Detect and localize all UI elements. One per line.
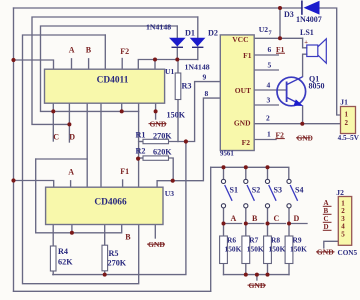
wire S4 output column [288, 208, 290, 236]
svg-text:C: C [53, 132, 59, 141]
svg-text:B: B [252, 214, 258, 223]
wire R5 top lead [104, 225, 106, 246]
switch S4 [287, 179, 298, 208]
IC U3 CD4066 [46, 187, 163, 224]
svg-text:GND: GND [297, 134, 313, 142]
diode D1 [169, 38, 186, 48]
wire speaker plus terminal [303, 38, 307, 48]
svg-text:R6: R6 [227, 236, 236, 245]
svg-text:1N4007: 1N4007 [296, 15, 322, 24]
svg-text:F2: F2 [120, 47, 129, 56]
svg-text:150K: 150K [225, 245, 242, 254]
wire CD4011 top pin B stub [88, 59, 90, 69]
wire J2 pin5 to ground [324, 241, 339, 248]
wire net C tap [268, 223, 286, 225]
wire U2 pin1 F2 stub [254, 139, 276, 141]
wire resistor rail GND tap [256, 275, 258, 280]
wire CD4011 to CD4066 vertical b [100, 103, 102, 187]
svg-text:A: A [69, 45, 75, 54]
IC U1 CD4011 [45, 69, 165, 103]
wire left rail tap to CD4066 top pin [14, 181, 54, 188]
svg-text:R2: R2 [136, 147, 146, 156]
svg-text:U3: U3 [165, 189, 174, 198]
svg-text:+: + [304, 39, 308, 46]
svg-text:A: A [231, 214, 237, 223]
wire R4 bottom lead [52, 271, 54, 275]
wire D1 anode loop to CD4011 bottom pins [41, 26, 177, 111]
svg-text:2: 2 [266, 114, 270, 123]
svg-text:LS1: LS1 [300, 28, 314, 37]
svg-text:R5: R5 [109, 249, 119, 258]
svg-text:S2: S2 [252, 186, 260, 195]
wire S2 output column [245, 208, 247, 236]
wire CD4011 pin to D1 D2 node [138, 60, 198, 70]
svg-text:270K: 270K [153, 132, 172, 141]
diode D2 [190, 38, 206, 48]
wire left outer rail [13, 8, 15, 291]
wire R8 bottom lead [267, 264, 269, 275]
resistor R3 [175, 73, 181, 100]
connector J2 [338, 197, 351, 246]
wire R2 left lead [139, 157, 143, 159]
svg-text:6: 6 [268, 45, 272, 54]
svg-text:150K: 150K [269, 245, 286, 254]
wire D2 anode loop to CD4011 pin D [32, 17, 198, 124]
resistor R6 [220, 236, 228, 264]
J2 net label A [323, 199, 332, 207]
wire D2 anode lead [197, 17, 199, 38]
svg-text:CD4066: CD4066 [94, 198, 127, 208]
ground symbol at J2 [316, 248, 335, 257]
svg-text:A: A [68, 168, 74, 177]
resistor R2 [143, 156, 169, 160]
wire R1 right to U2 pin9 [169, 82, 221, 142]
svg-text:F1: F1 [276, 45, 285, 54]
svg-text:D1: D1 [185, 29, 195, 38]
wire bottom rail A to R1 node [53, 142, 186, 275]
resistor R9 [285, 236, 293, 264]
net label F2 at pin 1 [276, 130, 285, 139]
wire CD4066 GND stub [154, 225, 156, 239]
wire top supply rail [14, 7, 303, 9]
J2 net label C [323, 215, 332, 223]
svg-text:1: 1 [267, 130, 271, 139]
svg-text:C: C [274, 214, 280, 223]
switch S2 [244, 179, 255, 208]
wire S1 output column [223, 208, 225, 236]
ground symbol below CD4066 [147, 240, 165, 249]
svg-text:F1: F1 [243, 51, 252, 60]
wire CD4066 top pin F1 stub [122, 180, 124, 187]
connector J1 [341, 107, 356, 134]
svg-text:2: 2 [345, 119, 349, 127]
svg-text:B: B [86, 45, 92, 54]
svg-text:CON5: CON5 [338, 249, 358, 257]
wire CD4011 to CD4066 vertical a [86, 103, 88, 187]
ground symbol at Q1 emitter [296, 134, 313, 142]
svg-text:7: 7 [269, 30, 272, 37]
svg-text:J1: J1 [340, 97, 348, 106]
J2 net label B [323, 207, 332, 215]
wire resistor ground rail [224, 274, 290, 276]
wire S3 output column [267, 208, 269, 236]
net label F1 at pin 6 [276, 45, 285, 54]
wire CD4066 top pin A stub [70, 181, 72, 187]
wire S1 top stub [223, 167, 225, 179]
ground symbol below CD4011 [149, 120, 167, 129]
svg-text:270K: 270K [108, 259, 127, 268]
svg-text:5: 5 [341, 230, 345, 238]
wire S3 top stub [267, 167, 269, 179]
wire left rail tap to CD4011 top pin [14, 60, 54, 69]
svg-text:GND: GND [234, 119, 251, 128]
svg-text:150K: 150K [290, 245, 307, 254]
svg-text:U2: U2 [259, 25, 268, 34]
switch S1 [221, 179, 232, 208]
svg-text:F2: F2 [276, 130, 285, 139]
svg-text:150K: 150K [167, 111, 186, 120]
resistor R1 [143, 139, 169, 143]
wire CD4011 top pin loop to CD4066 bottom pin [23, 35, 139, 284]
wire bottom rail C [14, 290, 211, 292]
svg-text:S4: S4 [295, 186, 303, 195]
wire net D tap [289, 223, 307, 225]
svg-text:D3: D3 [284, 10, 294, 19]
svg-text:R9: R9 [293, 236, 302, 245]
svg-text:S1: S1 [230, 186, 238, 195]
resistor R4 [50, 246, 56, 271]
wire R7 bottom lead [245, 264, 247, 275]
wire CD4011 top pin A stub [71, 59, 73, 69]
wire R5 bottom lead [104, 271, 106, 275]
wire R4 top lead [52, 225, 54, 247]
speaker LS1 [307, 39, 327, 63]
svg-text:8: 8 [205, 89, 209, 98]
wire D3 anode to J1 pin1 [318, 8, 341, 115]
wire R6 bottom lead [223, 264, 225, 275]
svg-text:F1: F1 [120, 167, 129, 176]
wire U2 pin6 F1 stub [254, 54, 278, 56]
svg-text:CD4011: CD4011 [97, 76, 129, 86]
wire net B tap [246, 223, 264, 225]
wire U2 pin3 stub [254, 104, 278, 106]
svg-text:OUT: OUT [235, 86, 251, 95]
svg-text:3: 3 [267, 96, 271, 105]
svg-text:1N4148: 1N4148 [146, 22, 171, 31]
svg-text:R8: R8 [271, 236, 280, 245]
wire D1 cathode lead [176, 47, 178, 60]
wire CD4011 bottom pin stub [121, 103, 123, 111]
svg-text:S3: S3 [274, 186, 282, 195]
diode D3 [302, 1, 320, 15]
wire S2 top stub [245, 167, 247, 179]
svg-text:VCC: VCC [232, 35, 248, 44]
resistor R5 [102, 245, 108, 271]
svg-text:150K: 150K [247, 245, 264, 254]
svg-text:R3: R3 [182, 81, 192, 90]
svg-text:5: 5 [268, 61, 272, 70]
wire below CD4066 [36, 159, 122, 233]
wire U2 pin7 VCC to speaker [254, 37, 302, 39]
J2 net label D [323, 223, 332, 231]
wire branch to lower loop [36, 158, 87, 160]
wire CD4011 GND pin stub [155, 103, 157, 119]
wire D2 cathode lead [197, 47, 199, 60]
transistor Q1 [277, 77, 306, 106]
wire R1 left lead [139, 141, 143, 143]
svg-text:U1: U1 [165, 67, 174, 76]
svg-text:J2: J2 [336, 188, 344, 197]
wire R3 top lead [177, 60, 179, 74]
wire Q1 emitter to GND node [302, 106, 304, 124]
svg-text:1: 1 [345, 111, 349, 119]
wire CD4011 top stub at 155 [154, 60, 156, 70]
wire speaker lower terminal to Q1 collector [303, 54, 307, 76]
svg-text:62K: 62K [58, 258, 73, 267]
svg-text:D: D [69, 132, 75, 141]
wire CD4066 bottom stub at 71.9 [71, 225, 73, 233]
IC U2 9561 [220, 35, 254, 151]
wire VCC drop to U2 pin7 [279, 8, 281, 38]
switch S3 [265, 179, 276, 208]
wire CD4011 top pin F2 stub [121, 59, 123, 70]
wire net A tap [224, 223, 242, 225]
wire CD4011 bottom net C stub [52, 103, 54, 141]
wire CD4011 bottom net D stub [68, 103, 70, 142]
svg-text:R4: R4 [58, 247, 68, 256]
svg-text:D: D [294, 214, 300, 223]
wire R2 right lead [169, 158, 174, 181]
wire R9 bottom lead [288, 264, 290, 275]
wire U2 pin4 OUT to Q1 base [254, 89, 286, 91]
resistor R7 [242, 236, 250, 264]
svg-text:R7: R7 [249, 236, 258, 245]
svg-text:9: 9 [203, 73, 207, 82]
svg-text:B: B [125, 232, 131, 241]
wire CD4011 pin to R1 R2 left bus [138, 103, 140, 187]
wire D1 anode lead [176, 26, 178, 38]
resistor R8 [264, 236, 272, 264]
ground symbol below resistor rail [248, 281, 267, 290]
svg-text:F2: F2 [242, 138, 251, 147]
svg-text:4: 4 [267, 81, 271, 90]
wire switch common vertical [210, 167, 212, 291]
svg-text:620K: 620K [153, 148, 172, 157]
wire U2 pin5 stub [254, 69, 278, 71]
wire U2 pin2 GND to J1 pin2 [254, 123, 340, 125]
svg-text:8050: 8050 [309, 82, 325, 91]
wire CD4066 pin via R2 node to U2 pin8 [157, 98, 220, 187]
svg-text:4.5–5V: 4.5–5V [338, 134, 360, 142]
wire CD4011 top pin at 105 [104, 35, 106, 69]
svg-text:D2: D2 [208, 29, 218, 38]
wire R3 bottom lead [177, 100, 179, 142]
svg-text:R1: R1 [136, 131, 146, 140]
wire switch common rail [211, 167, 289, 179]
svg-text:1N4148: 1N4148 [185, 63, 210, 72]
svg-text:9561: 9561 [220, 151, 234, 158]
